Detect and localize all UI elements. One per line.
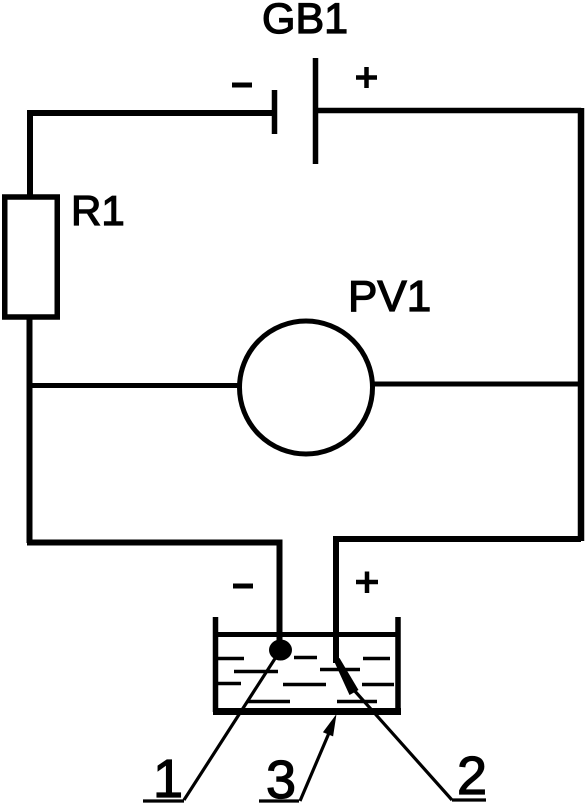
wire bottom-left with cathode drop: [27, 543, 280, 643]
liquid dash: [248, 700, 290, 704]
liquid dash: [363, 657, 390, 661]
op-amp meter PV1 circle: [240, 321, 373, 454]
liquid dash: [213, 682, 241, 686]
beaker right wall: [395, 617, 401, 712]
liquid dash: [362, 683, 394, 687]
svg-text:1: 1: [153, 749, 183, 805]
electrode 2 anode tip: [334, 658, 359, 695]
wire middle-left to meter: [30, 383, 241, 388]
wire top-right from battery to right side: [316, 108, 582, 114]
electrode plus sign: [356, 572, 378, 594]
wire bottom-right with anode drop: [336, 539, 581, 663]
liquid dash: [215, 657, 244, 661]
wire top-left from battery to left side: [30, 113, 272, 197]
liquid dash: [320, 668, 360, 672]
wire middle-right from meter: [372, 382, 581, 387]
liquid dash: [294, 656, 317, 660]
svg-text:PV1: PV1: [348, 272, 431, 321]
svg-text:3: 3: [266, 750, 296, 805]
battery minus sign: [232, 83, 252, 88]
liquid dash: [337, 700, 377, 704]
svg-text:2: 2: [457, 746, 487, 805]
electrode minus sign: [233, 584, 253, 589]
svg-text:R1: R1: [71, 187, 125, 234]
beaker left wall: [213, 617, 219, 712]
battery GB1 positive long plate: [313, 58, 319, 164]
svg-text:GB1: GB1: [262, 0, 348, 43]
resistor R1: [5, 197, 58, 317]
battery GB1 negative short plate: [272, 90, 278, 134]
wire left vertical below resistor: [27, 317, 33, 543]
liquid surface line: [213, 632, 400, 637]
beaker bottom: [213, 708, 401, 715]
electrode 1 cathode ball: [269, 640, 292, 661]
liquid dash: [283, 683, 326, 687]
leader line to label 2: [353, 689, 486, 800]
leader line arrow to label 3: [259, 733, 329, 801]
battery plus sign: [356, 67, 377, 88]
leader line to label 1: [143, 650, 281, 801]
liquid dash: [234, 670, 278, 674]
wire right vertical: [578, 108, 585, 541]
